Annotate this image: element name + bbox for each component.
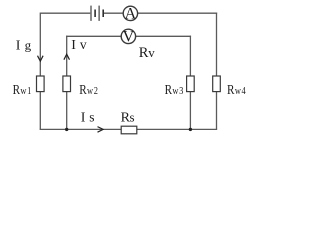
svg-text:Iv: Iv (71, 37, 87, 53)
wire right border (216, 13, 218, 130)
wire ammeter to top-right corner (138, 12, 217, 14)
arrow Is (right) (98, 127, 104, 133)
svg-text:Rv: Rv (139, 45, 156, 61)
voltmeter V (121, 29, 135, 46)
resistor RW4 (213, 76, 221, 92)
wire voltmeter right (136, 35, 191, 37)
wire battery to ammeter (104, 12, 124, 14)
arrow Iv (up) (64, 54, 70, 60)
resistor RW3 (187, 76, 195, 92)
svg-text:A: A (125, 5, 137, 22)
wire top left (40, 12, 90, 14)
wire Rw3 branch (189, 36, 191, 130)
junction node at Rw3/bottom (189, 128, 192, 131)
wire bottom (40, 128, 218, 130)
svg-text:Rs: Rs (121, 109, 135, 125)
wire voltmeter left (66, 35, 121, 37)
arrow Ig (down) (38, 56, 44, 62)
label Rw2 (79, 82, 98, 97)
resistor RW2 (63, 76, 71, 92)
battery (91, 6, 103, 21)
resistor RW1 (37, 76, 45, 92)
label Rw3 (165, 82, 184, 97)
junction node at Iv/bottom (65, 128, 68, 131)
wire left branch (39, 13, 41, 130)
svg-text:V: V (123, 29, 135, 46)
label Rw1 (13, 82, 32, 97)
label Rw4 (227, 82, 246, 97)
resistor RS (121, 126, 137, 134)
ammeter A (123, 5, 137, 22)
wire Iv branch (66, 36, 68, 130)
svg-text:Ig: Ig (16, 37, 32, 53)
